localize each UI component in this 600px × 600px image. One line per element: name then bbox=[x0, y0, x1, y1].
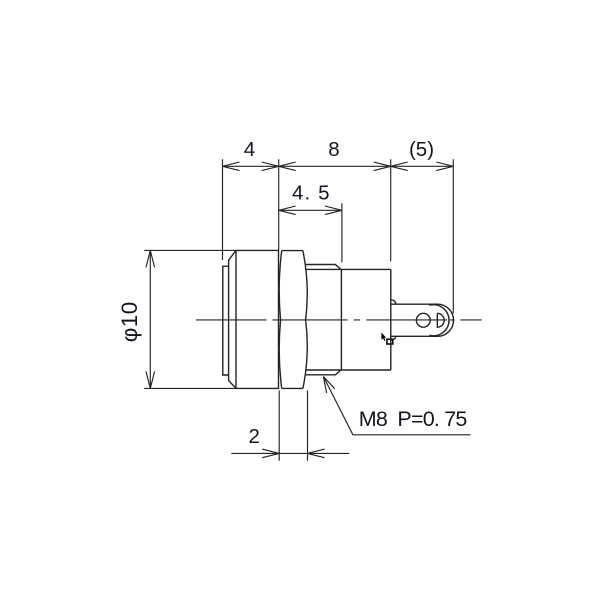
centerline bbox=[196, 319, 482, 321]
mouse cursor bbox=[381, 333, 386, 341]
washer flange bbox=[223, 266, 229, 375]
lug end half-hole bbox=[437, 313, 444, 327]
lug hole bbox=[416, 313, 430, 327]
svg-text:4: 4 bbox=[244, 138, 255, 161]
dimension 4.5 bbox=[279, 203, 342, 262]
knob cap body bbox=[229, 250, 279, 388]
threaded section M8 bbox=[306, 265, 342, 375]
dimension 2 bbox=[231, 391, 349, 461]
svg-text:φ10: φ10 bbox=[117, 301, 142, 342]
main body bbox=[306, 269, 391, 370]
hex nut bbox=[279, 251, 307, 389]
svg-text:M8 P=0. 75: M8 P=0. 75 bbox=[359, 407, 468, 431]
dimension chain 4 / 8 / (5) bbox=[223, 159, 454, 313]
lug boss fillets bbox=[391, 300, 396, 340]
osnap marker square bbox=[387, 339, 393, 344]
svg-text:8: 8 bbox=[328, 138, 339, 161]
svg-text:(5): (5) bbox=[409, 138, 434, 161]
svg-text:2: 2 bbox=[248, 425, 259, 448]
svg-text:4. 5: 4. 5 bbox=[292, 181, 331, 204]
leader M8 thread note bbox=[323, 377, 470, 435]
dimension phi10 bbox=[144, 250, 236, 388]
terminal lug bbox=[391, 304, 454, 336]
